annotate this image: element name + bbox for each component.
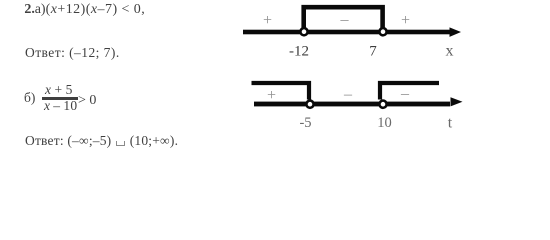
svg-text:+: + bbox=[267, 87, 276, 104]
svg-text:x: x bbox=[446, 43, 454, 60]
interval bracket rectangle (-12..7) bbox=[304, 7, 383, 31]
number line 1 axis bbox=[243, 30, 450, 35]
inequality (x+12)(x-7)<0 bbox=[46, 2, 146, 18]
problem line 2.a bbox=[24, 2, 35, 18]
fraction numerator x+5 bbox=[45, 82, 73, 98]
svg-text:–: – bbox=[340, 11, 350, 28]
number line 2 axis bbox=[254, 102, 450, 107]
open circle at -5 bbox=[306, 101, 313, 108]
number line 2 arrowhead bbox=[451, 97, 463, 106]
left raised sign bar ending at -5 bbox=[252, 83, 310, 100]
svg-text:t: t bbox=[448, 115, 453, 132]
open circle at -12 bbox=[300, 28, 307, 35]
svg-text:-12: -12 bbox=[289, 44, 309, 60]
number line 1 arrowhead bbox=[450, 27, 462, 37]
svg-text:-5: -5 bbox=[299, 115, 311, 131]
problem line b label bbox=[24, 90, 35, 106]
right raised sign bar starting at 10 bbox=[380, 83, 439, 100]
svg-text:7: 7 bbox=[369, 44, 377, 60]
answer line b bbox=[25, 133, 178, 149]
fraction bar bbox=[42, 97, 78, 99]
inequality > 0 bbox=[78, 93, 96, 109]
svg-text:10: 10 bbox=[377, 115, 392, 131]
svg-text:+: + bbox=[263, 12, 272, 29]
svg-text:+: + bbox=[401, 12, 410, 29]
fraction denominator x-10 bbox=[44, 98, 77, 114]
open circle at 10 bbox=[379, 101, 386, 108]
open circle at 7 bbox=[379, 28, 386, 35]
item label a) bbox=[35, 2, 46, 18]
svg-text:–: – bbox=[400, 85, 410, 102]
svg-text:–: – bbox=[343, 86, 353, 103]
answer line a bbox=[25, 45, 120, 61]
